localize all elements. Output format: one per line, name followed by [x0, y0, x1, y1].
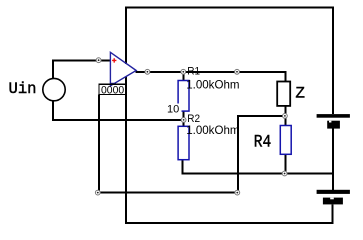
wire feedback: inverting side vertical down to bottom node — [98, 95, 100, 193]
wire negative supply: stub down, bottom rail, up to battery V2 — [126, 76, 333, 223]
battery V2 short plate — [323, 198, 343, 205]
node feedback bottom left — [95, 190, 100, 195]
node on wire to Z — [235, 69, 240, 74]
node R1 top — [181, 69, 186, 74]
wire positive supply: stub, top rail, down to battery V1 — [126, 8, 333, 115]
wire op-amp output to Z top — [136, 72, 286, 82]
resistor R1 body — [178, 81, 189, 112]
svg-text:Z: Z — [295, 84, 305, 102]
node Z bottom / R4 top — [283, 114, 288, 119]
svg-text:Uin: Uin — [9, 80, 37, 98]
battery V1 long plate — [317, 114, 350, 118]
wire R1 bottom lead — [183, 111, 185, 120]
node on output wire — [145, 69, 150, 74]
op-amp U1 triangle — [110, 52, 136, 86]
voltage source Uin circle — [43, 78, 65, 100]
node on noninverting input wire — [96, 58, 101, 63]
wire battery V1 bottom to battery V2 top (mid rail) — [332, 129, 334, 190]
wire from Uin top to op-amp noninverting input — [53, 60, 110, 78]
svg-text:10: 10 — [167, 104, 179, 116]
svg-text:R4: R4 — [254, 132, 271, 152]
svg-text:1.00kOhm: 1.00kOhm — [186, 78, 239, 92]
node label 10 (with opaque background clipping R1 corner) — [166, 104, 182, 117]
battery V2 plate notch — [330, 198, 334, 200]
wire R4 bottom lead — [284, 154, 286, 173]
node R4 bottom — [282, 171, 287, 176]
wire Z bottom through node to R4 top — [284, 106, 286, 126]
node feedback bottom right — [235, 190, 240, 195]
wire from Uin bottom to R1/R2 junction — [53, 101, 184, 120]
wire R2 top lead — [183, 120, 185, 126]
resistor R4 body — [280, 126, 291, 155]
wire R1 top lead — [182, 72, 184, 81]
svg-text:0000: 0000 — [101, 84, 124, 96]
battery V2 long plate — [317, 190, 350, 194]
impedance Z body — [277, 82, 290, 106]
node R1/R2 junction — [181, 118, 186, 123]
wire bottom feedback horizontal — [98, 192, 238, 194]
battery V1 short plate — [327, 121, 340, 129]
wire R2 bottom to mid rail (through R4 bottom node) — [183, 160, 334, 174]
resistor R2 body — [178, 126, 189, 159]
svg-text:R1: R1 — [187, 66, 200, 78]
svg-text:1.00kOhm: 1.00kOhm — [186, 123, 239, 137]
op-amp label box 0000 — [99, 84, 126, 94]
battery V1 plate notch — [329, 121, 331, 123]
op-amp plus marker — [112, 58, 116, 62]
wire feedback up to Z bottom / R4 top node — [238, 116, 285, 193]
op-amp minus marker — [111, 83, 116, 85]
